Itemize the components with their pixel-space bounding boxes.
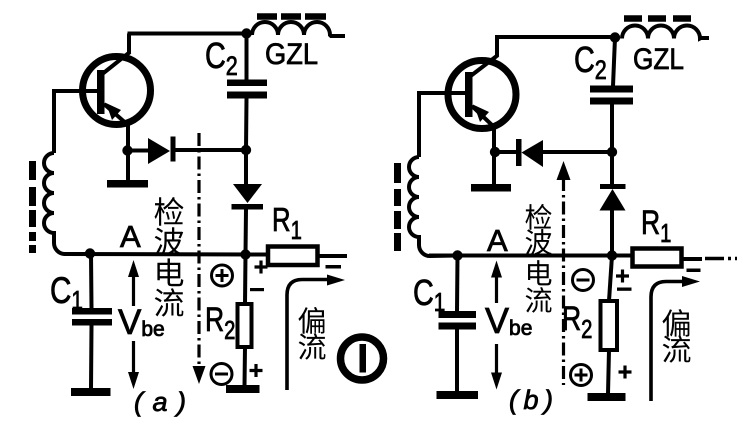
- plus sign (below R2 b): [619, 366, 632, 379]
- plus-in-circle (a top): [212, 265, 233, 286]
- text jian (b): [525, 204, 551, 230]
- wire: main row (a): [64, 252, 268, 257]
- transistor Q1: [54, 57, 151, 126]
- ground under C1 (b): [437, 391, 479, 399]
- inductor L2 (tank coil): [409, 157, 457, 256]
- text bo (b): [526, 229, 552, 255]
- svg-text:GZL: GZL: [265, 38, 318, 71]
- ground under R2 (b): [588, 393, 626, 401]
- text liu2 (a): [299, 333, 326, 360]
- Vbe measure arrows: [132, 271, 135, 375]
- node: top junction: [241, 28, 251, 38]
- diode D3 (horizontal, reversed): [496, 150, 517, 154]
- bias current hook arrow (a): [287, 280, 330, 391]
- minus-in-circle (b top): [573, 270, 594, 291]
- resistor R1 (b): [633, 249, 682, 267]
- plus sign (left of R1 b): [616, 270, 629, 283]
- text liu (b): [526, 287, 552, 313]
- svg-text:(b): (b): [509, 385, 553, 415]
- text bo (a): [155, 227, 184, 256]
- node: top junction (b): [610, 32, 620, 42]
- node: D3 anode / C2 bottom (b): [607, 147, 617, 157]
- detection current dash-dot line (b, arrow up): [562, 178, 565, 385]
- core (dashed) of GZL: [257, 13, 326, 20]
- svg-text:GZL: GZL: [633, 43, 684, 76]
- capacitor C2 (b): [613, 38, 615, 87]
- minus sign (above R2 b): [617, 288, 632, 291]
- annotation circled-1: [341, 337, 384, 380]
- node A: [85, 248, 95, 258]
- ground under R2: [226, 385, 260, 393]
- wire: collector lead Q1: [101, 34, 247, 76]
- wire: emitter Q2: [492, 126, 496, 185]
- ground under Q2 emitter: [471, 184, 511, 192]
- wire: collector lead Q2: [468, 37, 615, 78]
- capacitor C1: [89, 254, 94, 308]
- svg-text:A: A: [120, 219, 141, 254]
- text pian (b): [662, 309, 689, 337]
- diode D1 (horizontal): [128, 149, 149, 153]
- capacitor C2: [245, 34, 249, 81]
- core (dashed) of GZL (b): [624, 15, 691, 22]
- node A (b): [452, 250, 462, 260]
- capacitor C1 (b): [455, 256, 460, 312]
- resistor R2 (b): [609, 256, 612, 302]
- core (dashed) of L2: [394, 163, 401, 251]
- text liu2 (b): [663, 335, 691, 363]
- diode D4 (vertical, reversed): [610, 152, 614, 186]
- svg-text:A: A: [487, 223, 508, 258]
- text pian (a): [298, 307, 324, 334]
- plus sign (left of R1): [255, 261, 268, 274]
- node: D1 cathode / C2 bottom: [241, 145, 251, 155]
- core (dashed) of L1: [29, 161, 36, 253]
- wire: base/tank vertical (b): [417, 91, 421, 157]
- node: R1/R2 junction: [240, 249, 250, 259]
- inductor L1 (tank coil): [44, 153, 90, 254]
- wire: emitter Q1: [126, 124, 130, 181]
- text liu (a): [155, 288, 184, 316]
- ground under Q1 emitter: [107, 180, 148, 188]
- minus sign (above R2): [250, 288, 264, 291]
- wire: base/tank vertical: [52, 89, 56, 153]
- text jian (a): [155, 197, 184, 226]
- diode D2 (vertical): [244, 150, 248, 186]
- ground under C1: [71, 388, 111, 396]
- plus sign (below R2): [250, 364, 263, 377]
- node: R1/R2 junction (b): [607, 250, 617, 260]
- node: emitter junction (b): [490, 147, 500, 157]
- Vbe measure arrows (b): [495, 272, 498, 375]
- wire: main row (b): [429, 254, 632, 258]
- supply dash-dot stub (b): [705, 257, 737, 260]
- svg-text:(a): (a): [134, 387, 186, 417]
- resistor R2: [243, 255, 248, 305]
- minus-in-circle (a bottom): [211, 364, 232, 385]
- transistor Q2: [419, 61, 516, 129]
- minus sign (right of R1): [326, 265, 342, 269]
- inductor GZL: [252, 22, 345, 36]
- bias current hook arrow (b): [651, 282, 685, 402]
- plus-in-circle (b bottom): [571, 365, 592, 386]
- node: emitter junction: [122, 145, 132, 155]
- resistor R1: [268, 247, 318, 266]
- minus sign (right of R1 b): [687, 269, 701, 273]
- text dian (b): [528, 260, 551, 285]
- detection current dash-dot line (a): [197, 133, 200, 371]
- inductor GZL (b): [622, 26, 709, 39]
- text dian (a): [157, 258, 183, 286]
